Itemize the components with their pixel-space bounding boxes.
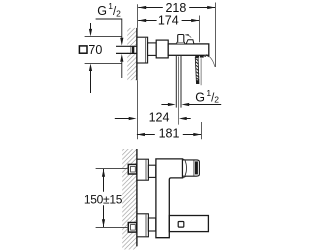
leader G1/2 top: [96, 19, 122, 38]
supply stub behind wall (side view): [116, 46, 137, 54]
spout block (front view): [169, 216, 208, 232]
wall face line (front view): [136, 149, 138, 246]
lever swing arc (side view): [207, 55, 215, 67]
lower neck: [148, 218, 155, 231]
lower part of G1/2 leader dimension: [120, 54, 123, 62]
extension line right 181: [201, 122, 203, 139]
svg-text:124: 124: [149, 111, 170, 125]
wall hatching (front view): [122, 149, 137, 250]
70 extension lines: [85, 36, 122, 38]
outlet pipe (side view): [175, 55, 177, 107]
lever mount dark parts (side view): [195, 55, 199, 57]
lever blade (side view): [195, 58, 199, 84]
escutcheon (side view): [137, 37, 148, 63]
dimension 124: [115, 118, 129, 120]
svg-text:174: 174: [158, 13, 179, 27]
dimension 174: [138, 20, 199, 22]
lower union nut behind wall: [128, 223, 136, 233]
body (side view): [168, 44, 209, 55]
knob plinth (side view): [177, 42, 185, 44]
extension line right 174: [199, 16, 201, 43]
lower escutcheon (front view): [137, 214, 148, 237]
dimension 218: [138, 7, 215, 9]
neck between escutcheon and body (side view): [148, 43, 157, 56]
upper neck: [148, 165, 155, 177]
shared left extension line (wall face): [137, 4, 139, 28]
diverter square on spout: [178, 222, 184, 228]
extension line right 218: [215, 3, 217, 68]
svg-text:181: 181: [159, 127, 180, 141]
bump on body top (side view): [186, 40, 194, 44]
upper escutcheon (front view): [137, 159, 148, 180]
upper union nut behind wall: [128, 164, 136, 174]
dimension 150±15: [96, 168, 129, 170]
70 arrows: [90, 23, 92, 29]
body column and top arm (front view): [156, 159, 183, 238]
dimension square 70: [79, 46, 87, 53]
cartridge block (side view): [156, 40, 168, 58]
lever far edge line: [200, 58, 202, 85]
wall face line (side view): [136, 28, 138, 80]
pipe thread arrows: [161, 104, 168, 106]
dimension 181: [137, 134, 155, 136]
svg-text:150±15: 150±15: [84, 193, 123, 207]
diverter knob (side view): [178, 35, 184, 43]
wall hatching (side view): [127, 28, 137, 80]
svg-text:70: 70: [88, 43, 102, 57]
pipe centerline: [178, 57, 180, 125]
knob swing arc: [185, 35, 191, 38]
handle (front view, end-on): [183, 160, 200, 176]
